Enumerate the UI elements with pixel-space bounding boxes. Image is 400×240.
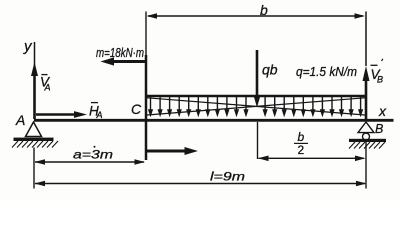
- dim a line: [35, 161, 144, 163]
- beam AB (x-axis line): [34, 119, 394, 122]
- label V_B: [371, 59, 384, 85]
- speck above 3: [94, 146, 96, 148]
- dim b/2 line: [259, 157, 365, 159]
- node C vertical (moment couple lever): [145, 55, 148, 160]
- svg-text:2: 2: [298, 143, 305, 157]
- load diagonal (descending C to B): [147, 98, 365, 115]
- label H_A: [89, 103, 103, 120]
- dim b line: [148, 15, 363, 17]
- dim l line: [35, 183, 365, 185]
- svg-text:x: x: [378, 103, 387, 119]
- support B (roller): [358, 122, 374, 133]
- svg-text:A: A: [44, 83, 51, 93]
- moment m bottom arrow (points right): [146, 150, 186, 153]
- label b/2 fraction: [294, 130, 308, 157]
- reaction V_A: [33, 75, 36, 119]
- roller circle: [363, 133, 370, 140]
- svg-text:q=1.5 kN/m: q=1.5 kN/m: [296, 65, 357, 79]
- svg-text:qb: qb: [262, 62, 278, 78]
- moment m top arrow (points left): [112, 60, 146, 63]
- svg-text:A: A: [96, 110, 103, 120]
- svg-text:b: b: [298, 130, 305, 144]
- extension line below load centre: [257, 122, 259, 159]
- extension line below B: [365, 142, 367, 189]
- svg-text:l=9m: l=9m: [210, 170, 245, 184]
- label V_A: [40, 75, 51, 93]
- svg-text:A: A: [15, 112, 25, 128]
- y-axis: [34, 42, 36, 119]
- svg-text:b: b: [260, 2, 268, 18]
- hatching at A: [12, 141, 58, 148]
- svg-text:a=3m: a=3m: [73, 148, 113, 162]
- resultant force qb: [256, 50, 259, 99]
- support A (pin): [26, 122, 42, 137]
- load diagonal (ascending C to B): [147, 98, 365, 115]
- extension line below A: [33, 148, 35, 189]
- svg-text:B: B: [375, 122, 383, 136]
- reaction V_B (extension line up to dim b): [365, 12, 367, 67]
- ground at B: [349, 139, 386, 142]
- distributed load top envelope: [146, 95, 366, 97]
- svg-text:B: B: [377, 75, 383, 85]
- reaction H_A: [36, 113, 76, 116]
- hatching at B: [349, 142, 385, 149]
- svg-text:m=18kN·m: m=18kN·m: [96, 46, 144, 60]
- load arrows (23 small down arrows): [151, 97, 361, 112]
- node C riser (extension line up to dim b): [145, 12, 147, 56]
- ground at A: [14, 138, 54, 141]
- svg-text:C: C: [131, 101, 142, 117]
